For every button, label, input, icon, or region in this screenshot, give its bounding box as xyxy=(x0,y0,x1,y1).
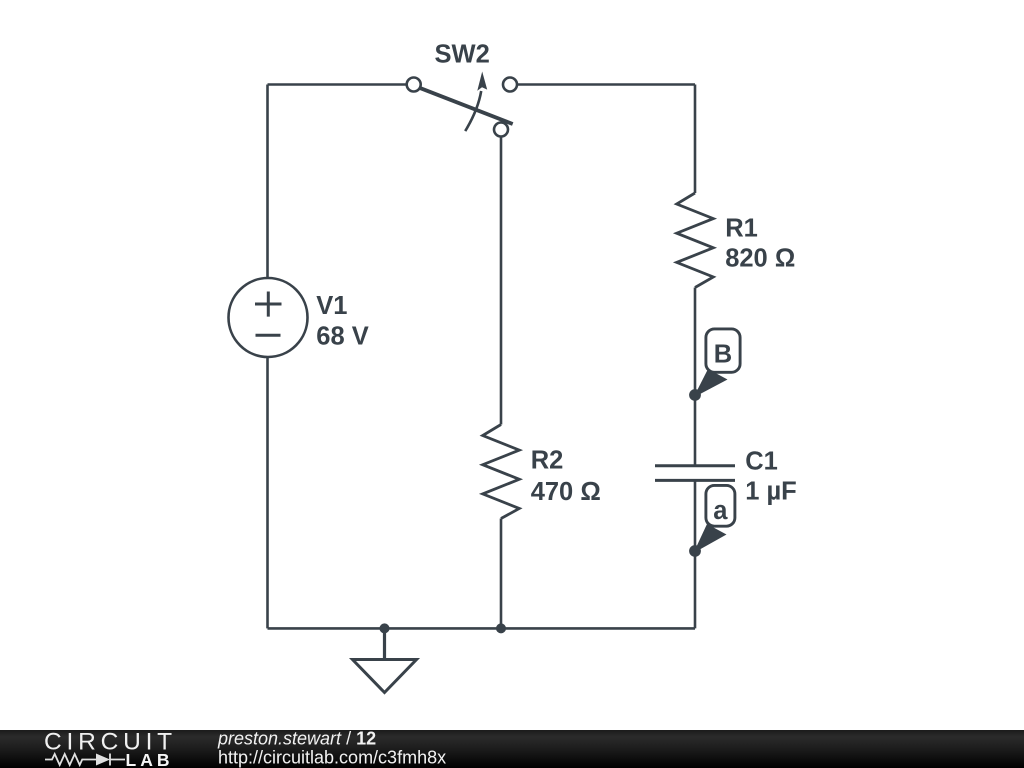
wire right vertical down to R1 xyxy=(694,85,697,194)
junction dot ground/bottom wire xyxy=(380,623,390,633)
wire switch pole down to R2 top xyxy=(500,137,503,425)
label R1 820 ohm xyxy=(725,214,795,272)
ground xyxy=(353,628,417,692)
svg-text:1 µF: 1 µF xyxy=(745,477,797,505)
svg-text:470 Ω: 470 Ω xyxy=(531,478,601,506)
node a flag xyxy=(689,485,735,556)
svg-text:SW2: SW2 xyxy=(435,40,490,68)
label C1 1 uF xyxy=(745,448,797,506)
svg-text:R2: R2 xyxy=(531,446,564,474)
footer bar xyxy=(0,730,1024,768)
wire node B to capacitor C1 top plate xyxy=(694,395,697,465)
svg-text:C1: C1 xyxy=(745,448,778,476)
voltage source V1 xyxy=(229,278,308,357)
svg-text:B: B xyxy=(714,341,732,369)
wire R2 bottom to bottom wire xyxy=(500,519,503,629)
wire top horizontal to switch left terminal xyxy=(268,83,407,86)
wire node a down to bottom-right corner xyxy=(694,551,697,628)
label R2 470 ohm xyxy=(531,446,601,505)
svg-text:a: a xyxy=(713,497,728,525)
switch SW2 xyxy=(407,72,517,137)
node B flag xyxy=(689,329,740,401)
junction dot R2/bottom wire xyxy=(496,623,506,633)
capacitor C1 xyxy=(655,466,735,481)
svg-text:V1: V1 xyxy=(316,292,347,320)
wire bottom horizontal xyxy=(268,627,696,630)
wire R1 bottom to node B xyxy=(694,288,697,396)
wire left vertical (V1 bottom to bottom wire) xyxy=(266,357,269,629)
wire switch right terminal to top-right corner xyxy=(517,83,695,86)
svg-text:820 Ω: 820 Ω xyxy=(725,244,795,272)
resistor R1 xyxy=(677,193,714,288)
svg-text:preston.stewart / 12: preston.stewart / 12 xyxy=(217,729,376,749)
svg-text:http://circuitlab.com/c3fmh8x: http://circuitlab.com/c3fmh8x xyxy=(218,748,446,768)
resistor R2 xyxy=(483,425,520,519)
wire capacitor C1 bottom plate to node a xyxy=(694,482,697,552)
svg-text:68 V: 68 V xyxy=(316,322,368,350)
label V1 68 V xyxy=(316,292,368,350)
wire top-left vertical (V1 top to corner) xyxy=(266,85,269,279)
logo resistor-diode xyxy=(45,754,125,766)
svg-text:LAB: LAB xyxy=(126,750,174,768)
svg-text:R1: R1 xyxy=(725,214,758,242)
